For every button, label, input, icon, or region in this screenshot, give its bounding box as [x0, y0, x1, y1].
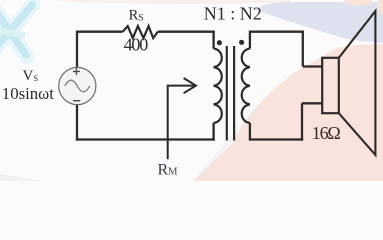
wire top-left horizontal (source to resistor)	[77, 31, 123, 33]
background cyan asterisk top-left	[0, 4, 33, 57]
RM pointer arrow	[168, 78, 196, 159]
background pink swoosh right	[193, 44, 383, 181]
core line right	[233, 46, 235, 141]
svg-text:16Ω: 16Ω	[312, 123, 341, 143]
background pink wisp top edge	[60, 0, 290, 4]
wires group	[76, 26, 322, 141]
secondary winding stub bottom	[249, 123, 251, 141]
wire bottom-left horizontal	[76, 138, 215, 140]
wire secondary bottom horizontal	[250, 138, 303, 140]
primary winding stub bottom	[212, 123, 214, 141]
sine symbol	[65, 80, 90, 92]
primary winding stub top	[212, 31, 214, 49]
phase dot primary	[217, 40, 222, 45]
secondary winding stub top	[249, 31, 251, 49]
wire secondary top vertical down	[302, 31, 304, 67]
secondary winding coil	[242, 49, 250, 124]
wire secondary bottom vertical up	[301, 103, 303, 140]
wire left vertical below source	[76, 104, 78, 140]
transformer T1	[214, 31, 250, 141]
svg-text:400: 400	[124, 35, 149, 55]
background pink blob top-right corner	[377, 0, 383, 14]
plus sign	[73, 68, 80, 75]
wire resistor to transformer	[158, 31, 215, 33]
core line left	[226, 46, 228, 141]
svg-text:10sinωt: 10sinωt	[2, 84, 54, 103]
wire into speaker bottom	[302, 102, 322, 104]
speaker driver rectangle	[322, 58, 339, 113]
resistor RS zigzag	[123, 26, 158, 38]
phase dot secondary	[239, 40, 244, 45]
background lavender band top-right	[255, 2, 383, 43]
svg-text:N1 : N2: N1 : N2	[204, 3, 262, 23]
wire left vertical above source	[76, 31, 78, 68]
background base	[0, 0, 383, 181]
wire into speaker top	[303, 65, 322, 67]
background pink blob top-right 1	[344, 0, 372, 6]
minus sign	[73, 100, 80, 102]
speaker cone	[339, 11, 376, 155]
voltage source VS	[59, 67, 96, 104]
background boundary soft tint	[199, 106, 258, 176]
wire secondary top horizontal	[250, 31, 304, 33]
primary winding coil	[214, 49, 222, 124]
background gray sliver bottom-left	[0, 174, 42, 181]
